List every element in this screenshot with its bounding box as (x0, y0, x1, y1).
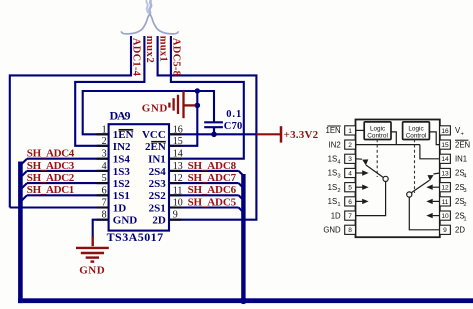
svg-text:mux2: mux2 (144, 36, 155, 63)
wire SH_ADC7 pin12 (169, 182, 239, 184)
svg-text:SH_ADC6: SH_ADC6 (188, 184, 237, 196)
pin stubs black right (169, 134, 181, 219)
svg-text:10: 10 (173, 198, 183, 209)
overline 2EN (diagram) (455, 139, 468, 141)
logic control box 2 (403, 122, 430, 140)
svg-text:3: 3 (337, 174, 340, 180)
svg-text:1S2: 1S2 (113, 178, 131, 190)
svg-text:SH_ADC2: SH_ADC2 (27, 172, 75, 184)
bus left vertical (18, 162, 23, 304)
svg-text:13: 13 (173, 161, 183, 172)
pin box 10 (440, 211, 451, 220)
ground symbol (76, 237, 109, 262)
svg-text:2S3: 2S3 (149, 178, 167, 190)
svg-text:SH_ADC3: SH_ADC3 (27, 160, 75, 172)
pin box 6 (345, 197, 356, 206)
svg-text:2S2: 2S2 (149, 190, 167, 202)
wire GND riser to pin15 2EN (169, 91, 197, 146)
switch1 channel arrow 1S2 (356, 186, 363, 188)
svg-text:IN1: IN1 (148, 154, 166, 166)
svg-text:SH_ADC8: SH_ADC8 (188, 160, 237, 172)
junction dot cap/VCC (211, 132, 217, 138)
svg-text:GND: GND (142, 103, 168, 115)
svg-text:14: 14 (173, 149, 183, 160)
svg-text:1: 1 (102, 124, 107, 135)
logic control box 1 (364, 122, 391, 140)
svg-text:1S: 1S (328, 183, 338, 192)
wire SH_ADC3 pin4 (27, 170, 109, 172)
svg-text:1S3: 1S3 (113, 166, 131, 178)
svg-text:1S4: 1S4 (113, 154, 131, 166)
svg-text:1S1: 1S1 (113, 190, 130, 202)
svg-text:15: 15 (173, 136, 183, 147)
svg-text:1: 1 (463, 216, 466, 222)
wire pin1 1EN riser + GND rail + cap top lead (83, 91, 214, 134)
svg-text:5: 5 (348, 185, 352, 192)
bus entry SH_ADC4 (22, 159, 27, 164)
svg-text:4: 4 (348, 170, 352, 177)
wire logic1 to IN2 line (391, 132, 396, 145)
wire SH_ADC1 pin6 (27, 194, 109, 196)
wire SH_ADC8 pin13 (169, 170, 239, 172)
svg-text:1S: 1S (328, 169, 338, 178)
svg-text:7: 7 (348, 213, 352, 220)
svg-text:2D: 2D (455, 226, 465, 235)
svg-text:15: 15 (441, 142, 449, 149)
wire 2D pole (409, 197, 439, 230)
bus entry SH_ADC1 (22, 195, 27, 200)
switch2 channel arrow 2S3 (433, 186, 440, 188)
pin box 9 (440, 225, 451, 234)
pin labels left side (323, 126, 341, 234)
svg-text:11: 11 (442, 199, 449, 206)
bus entry SH_ADC3 (22, 171, 27, 176)
svg-text:9: 9 (173, 210, 178, 221)
svg-text:14: 14 (441, 156, 449, 163)
svg-text:2: 2 (348, 142, 352, 149)
pin box 13 (440, 168, 451, 177)
wire IN1 riser (420, 145, 440, 159)
bus right vertical (241, 174, 245, 301)
pin labels right side (455, 126, 470, 234)
pin box digits left (348, 128, 352, 234)
svg-text:mux1: mux1 (158, 36, 169, 62)
subscripts right (461, 131, 468, 222)
IC pin names right column (142, 129, 166, 226)
svg-text:5: 5 (102, 173, 107, 184)
svg-text:IN1: IN1 (455, 155, 467, 164)
svg-text:GND: GND (79, 264, 105, 276)
svg-text:+3.3V2: +3.3V2 (284, 129, 319, 141)
dashed control line 1 (376, 140, 378, 178)
pin numbers left (102, 124, 107, 220)
capacitor C70 (204, 122, 223, 134)
switch1 channel arrow 1S1 (356, 200, 363, 202)
svg-text:1S: 1S (328, 197, 338, 206)
svg-text:SH_ADC7: SH_ADC7 (188, 172, 237, 184)
svg-text:1EN: 1EN (113, 129, 134, 141)
svg-text:0.1: 0.1 (226, 109, 241, 120)
wire mux2 vertical + rail to IN2 riser (75, 36, 144, 146)
bus entry SH_ADC2 (22, 183, 27, 188)
svg-text:DA9: DA9 (110, 109, 131, 123)
junction dot (195, 88, 200, 93)
bus entry SH_ADC8 (239, 171, 244, 176)
svg-text:SH_ADC4: SH_ADC4 (27, 148, 75, 160)
svg-text:GND: GND (323, 226, 341, 235)
svg-text:2EN: 2EN (455, 140, 470, 149)
pin box 14 (440, 154, 451, 163)
svg-text:16: 16 (441, 128, 449, 135)
svg-text:8: 8 (102, 210, 107, 221)
svg-text:2: 2 (102, 136, 107, 147)
svg-text:9: 9 (443, 227, 447, 234)
svg-text:4: 4 (102, 161, 107, 172)
wire SH_ADC4 pin3 (27, 158, 109, 160)
pin box 12 (440, 183, 451, 192)
wire SH_ADC2 pin5 (27, 182, 109, 184)
svg-text:2S4: 2S4 (149, 166, 167, 178)
svg-text:12: 12 (441, 185, 449, 192)
svg-text:8: 8 (348, 227, 352, 234)
wire logic2 to 2EN (430, 132, 440, 145)
svg-text:C70: C70 (224, 121, 243, 132)
switch2 channel arrow 2S4 (angled) (433, 173, 439, 174)
svg-text:Control: Control (367, 132, 388, 139)
svg-text:TS3A5017: TS3A5017 (107, 230, 164, 244)
switch2 channel arrow 2S1 (433, 215, 440, 217)
chip outline box (356, 120, 440, 238)
svg-text:ADC1-4: ADC1-4 (131, 38, 142, 77)
op IC body DA9 (109, 124, 169, 230)
pin box 7 (345, 211, 356, 220)
pin box 1 (345, 126, 356, 135)
svg-text:IN2: IN2 (113, 141, 131, 153)
svg-text:VCC: VCC (142, 129, 166, 141)
svg-text:1: 1 (348, 128, 352, 135)
switch1 channel arrow 1S4 (angled) (356, 158, 363, 160)
wire ADC5-8 vertical + rail to IN1 riser (169, 36, 244, 159)
subscripts left (337, 160, 341, 209)
svg-text:ADC5-8: ADC5-8 (171, 38, 182, 76)
pin box 2 (345, 140, 356, 149)
bus entry SH_ADC5 (239, 208, 244, 213)
svg-text:1S: 1S (328, 155, 338, 164)
switch2 channel arrow 2S2 (433, 200, 440, 202)
svg-text:10: 10 (441, 213, 449, 220)
junction bus bottom right (240, 297, 247, 304)
svg-text:1EN: 1EN (326, 126, 341, 135)
switch1 bar (366, 165, 384, 178)
wire ADC1-4 vertical+left route (10, 36, 131, 208)
svg-text:2: 2 (337, 188, 340, 194)
brace (121, 15, 178, 34)
wire VCC rail pin16 (169, 133, 256, 135)
svg-text:2: 2 (463, 202, 466, 208)
switch2 pole circle (407, 192, 412, 197)
svg-text:12: 12 (173, 173, 183, 184)
wire 1EN to logic1 (356, 129, 365, 131)
pin numbers right (173, 124, 183, 220)
wire IN2 line (356, 144, 420, 146)
svg-text:6: 6 (102, 185, 107, 196)
pin box 8 (345, 225, 356, 234)
wire SH_ADC6 pin11 (169, 194, 239, 196)
svg-text:IN2: IN2 (329, 140, 341, 149)
svg-text:1D: 1D (113, 202, 127, 214)
IC pin names left column (113, 129, 138, 226)
overline 1EN (diagram) (327, 125, 340, 127)
pin box 3 (345, 154, 356, 163)
switch2 bar (411, 180, 429, 193)
svg-text:16: 16 (173, 124, 183, 135)
pin box 15 (440, 140, 451, 149)
pin box 4 (345, 168, 356, 177)
wire SH_ADC5 pin10 (169, 206, 239, 208)
svg-text:SH_ADC1: SH_ADC1 (27, 184, 75, 196)
svg-text:1: 1 (337, 202, 340, 208)
wire 1D pole (356, 182, 386, 216)
power port GND (bar style) (169, 91, 195, 118)
switch1 pole circle (383, 176, 388, 181)
pin box 5 (345, 183, 356, 192)
pin stubs black left (97, 134, 109, 219)
svg-text:2EN: 2EN (145, 141, 166, 153)
overline 1EN (119, 129, 134, 131)
bus entry SH_ADC7 (239, 183, 244, 188)
svg-text:6: 6 (348, 199, 352, 206)
bus bottom horizontal (18, 298, 473, 303)
junction dot (195, 103, 201, 109)
wire mux1 vertical + rail to pin9 2D (158, 36, 257, 220)
pin box 16 (440, 126, 451, 135)
bus entry SH_ADC6 (239, 195, 244, 200)
power +3.3V2 stub (256, 133, 280, 135)
svg-text:GND: GND (113, 215, 138, 227)
svg-text:3: 3 (463, 188, 466, 194)
svg-text:Control: Control (406, 132, 427, 139)
power +3.3V2 bar (280, 126, 283, 142)
svg-text:2S1: 2S1 (149, 202, 166, 214)
bus ripple squiggle (146, 0, 151, 14)
svg-text:13: 13 (441, 170, 449, 177)
svg-text:3: 3 (348, 156, 352, 163)
pin box digits right (441, 128, 449, 234)
pin box 11 (440, 197, 451, 206)
wire pin8 GND lead (93, 220, 109, 238)
svg-text:11: 11 (173, 185, 183, 196)
svg-text:1D: 1D (331, 211, 341, 220)
svg-text:3: 3 (102, 149, 107, 160)
dashed control line 2 (414, 140, 416, 194)
svg-text:SH_ADC5: SH_ADC5 (188, 196, 237, 208)
svg-text:7: 7 (102, 198, 107, 209)
wire pin7 1D to left (10, 206, 109, 208)
switch1 channel arrow 1S3 (356, 172, 363, 174)
svg-text:2D: 2D (152, 215, 166, 227)
overline 2EN (151, 141, 166, 143)
